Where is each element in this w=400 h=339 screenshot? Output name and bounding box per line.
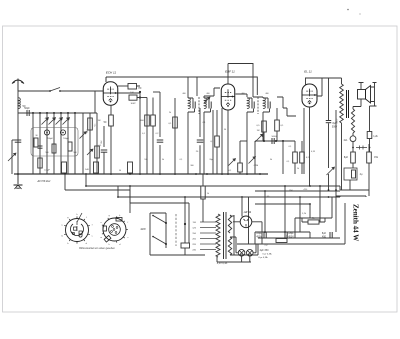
wire tube3 top to rail — [305, 78, 307, 85]
wire field to electrolytic — [353, 106, 375, 136]
wire small links filter — [264, 232, 330, 238]
tube U2 EBF11 — [221, 84, 235, 110]
ground bus main — [14, 173, 268, 175]
coil L3 — [68, 142, 72, 151]
voltage selector S3 rails — [150, 213, 166, 248]
svg-text:Röhrensockel von unten gesehen: Röhrensockel von unten gesehen — [79, 247, 115, 250]
wire C8 node link — [137, 92, 140, 174]
capacitor C2 on grid line — [26, 110, 28, 116]
svg-text:EBF 11: EBF 11 — [225, 70, 235, 74]
svg-text:k: k — [119, 215, 120, 217]
IF transformer T1 secondary coil — [204, 98, 206, 109]
svg-text:2x1: 2x1 — [344, 139, 349, 142]
socket V2 pin dots — [112, 226, 114, 228]
wire R1 to bus — [110, 126, 112, 174]
wire vertical x335 lower — [335, 190, 337, 232]
trimmer CT4 — [63, 118, 70, 125]
resistor R5 diode load — [215, 136, 220, 147]
wire antenna switch horizontal — [18, 91, 104, 113]
wire heater line y186 — [86, 174, 340, 186]
wire rectifier leads — [233, 222, 262, 244]
wire dashed shield x176 — [175, 214, 177, 246]
wire tube1 plate right — [118, 85, 128, 87]
socket V1 key — [71, 224, 84, 236]
variable capacitor C3 section 1 — [44, 130, 49, 135]
svg-text:460: 460 — [265, 93, 268, 95]
socket V2 pins — [102, 224, 104, 227]
socket V2 notches — [116, 218, 122, 222]
capacitor C31 — [38, 145, 43, 147]
wire tube2 plate to IF2 — [236, 94, 248, 97]
antenna trimmer branch — [11, 140, 13, 174]
electrolytic C21 8uF — [284, 232, 286, 238]
wire vertical x265 — [264, 191, 266, 232]
svg-text:s: s — [127, 237, 128, 239]
resistor R18 below bus — [202, 174, 204, 186]
wire B+ bus y244 — [237, 203, 345, 244]
svg-text:0,1: 0,1 — [229, 170, 232, 172]
wire HT to rectifier — [230, 215, 234, 217]
svg-text:6 pr 0,3A: 6 pr 0,3A — [263, 253, 272, 256]
svg-text:HF: HF — [138, 87, 142, 90]
wire left drop from top rail x197 — [196, 77, 198, 96]
svg-text:5000: 5000 — [272, 136, 278, 138]
tube U4 AZ11 rectifier — [240, 216, 252, 228]
wire detector node — [255, 132, 295, 141]
node dots on y113 — [32, 112, 34, 114]
electrolytic block C19 — [344, 168, 357, 180]
antenna A1 — [12, 79, 24, 92]
wire lower-left link y203 — [65, 174, 189, 203]
IF T2 core — [257, 97, 259, 114]
dial lamp LP2 — [247, 250, 254, 257]
capacitor C13 across T2 primary — [251, 102, 253, 109]
resistor R8 — [293, 152, 298, 163]
electrolytic C22 8uF — [329, 232, 331, 238]
coil L1 antenna — [18, 98, 20, 109]
svg-text:50: 50 — [119, 170, 121, 172]
switch S1 wave change — [50, 88, 60, 92]
IF transformer T2 secondary coil — [263, 98, 265, 109]
svg-text:460: 460 — [206, 93, 209, 95]
svg-text:450V: 450V — [256, 236, 262, 239]
capacitor C35 — [38, 158, 42, 168]
power transformer T4 primary winding — [216, 214, 220, 257]
socket V1 center detail — [79, 234, 82, 237]
svg-text:2k: 2k — [169, 112, 171, 114]
svg-text:4,2W: 4,2W — [335, 119, 337, 124]
resistor R16 — [95, 146, 100, 158]
wire tube3 grid from detector — [277, 97, 296, 116]
volume potentiometer P1 — [254, 141, 256, 174]
wire line y204 — [255, 204, 310, 218]
resistor R13 4k — [308, 220, 319, 224]
power transformer T4 HT winding — [228, 215, 231, 233]
svg-text:AZ 11: AZ 11 — [243, 210, 252, 214]
svg-text:4μF 350: 4μF 350 — [260, 249, 269, 252]
power transformer T4 core — [223, 212, 225, 259]
svg-text:h: h — [109, 244, 110, 246]
svg-text:0,1μF: 0,1μF — [44, 170, 50, 172]
wire rectifier anode feed — [241, 197, 243, 217]
wire selector bottom — [150, 248, 205, 255]
capacitor C9 — [157, 139, 164, 141]
svg-text:6 pr 0,3A: 6 pr 0,3A — [259, 256, 268, 259]
wire grid line y113 — [18, 112, 97, 114]
electrolytic C20 16uF — [263, 232, 265, 238]
capacitor C1 50pF — [15, 139, 22, 141]
wire tube3 cathode down — [309, 107, 311, 186]
wire vertical x285 — [284, 186, 286, 232]
trimmer CT2 — [49, 118, 56, 125]
wire tube3 leads — [303, 108, 305, 174]
capacitor C10 across T1 primary — [192, 102, 194, 109]
svg-text:450: 450 — [322, 236, 327, 239]
svg-text:g: g — [109, 215, 110, 217]
wire x295 AF coupling — [294, 141, 296, 152]
wire right links — [336, 186, 369, 197]
junction dots right mesh — [264, 190, 266, 192]
svg-text:0,5M: 0,5M — [254, 165, 259, 167]
junction dots on bus — [17, 173, 19, 175]
mains switch S2 — [327, 167, 335, 175]
capacitor C14 across T2 secondary — [267, 102, 269, 109]
socket V2 inner — [109, 224, 121, 236]
IF transformer T2 primary coil — [247, 98, 249, 109]
svg-text:EL 11: EL 11 — [304, 70, 312, 74]
capacitor C7 coupling — [128, 84, 137, 90]
trimmer CT1 — [42, 118, 49, 125]
svg-text:500V: 500V — [332, 127, 338, 129]
svg-text:100P: 100P — [130, 103, 136, 105]
svg-text:5k: 5k — [162, 159, 164, 161]
tube socket V1 outline — [66, 219, 89, 242]
power transformer T4 tap labels — [200, 221, 216, 223]
wire lamps link — [236, 237, 256, 253]
trimmer CT7 — [80, 132, 87, 139]
resistor R6 0.5M — [262, 121, 267, 132]
speaker field resistor R10 — [351, 109, 354, 133]
output transformer T3 primary — [340, 84, 344, 123]
svg-text:50pF: 50pF — [24, 107, 30, 110]
junction dots distribution — [129, 185, 131, 187]
IF T1 core — [198, 97, 200, 114]
wire filament return y262 — [217, 256, 251, 262]
tube socket V2 outline — [103, 218, 126, 241]
IF transformer T1 primary coil — [188, 98, 190, 109]
svg-text:760pF: 760pF — [47, 138, 54, 140]
wire drop x189 — [188, 203, 190, 243]
svg-text:1M: 1M — [257, 130, 260, 132]
power transformer T4 filament winding — [228, 237, 231, 255]
capacitor C12 — [197, 139, 204, 141]
svg-text:450V: 450V — [288, 236, 294, 239]
resistor R17 — [238, 163, 243, 172]
wire AVC line y197 — [118, 186, 340, 197]
fuse F1 — [181, 243, 190, 248]
tube U3 EL11 — [302, 84, 317, 107]
wire y232 link — [255, 232, 310, 244]
wire grid trimmer — [204, 97, 210, 103]
wire screen bus y238 — [258, 237, 340, 239]
svg-text:42W: 42W — [140, 227, 146, 231]
node HF — [139, 91, 141, 93]
svg-text:8μF: 8μF — [344, 156, 349, 159]
ink speck top margin — [347, 9, 349, 11]
output transformer core — [346, 90, 348, 118]
speaker LS1 cone — [366, 86, 371, 104]
ground symbol — [17, 174, 19, 184]
wire top B+ rail — [106, 77, 257, 95]
wire transformer HT right rail — [233, 215, 235, 255]
wire y218 link — [295, 197, 332, 238]
capacitor C34 — [128, 162, 133, 173]
dial lamp LP1 — [238, 250, 245, 257]
electrolytic C17 2x1 — [350, 136, 356, 142]
capacitor C15 5000 — [271, 138, 273, 144]
svg-text:+250: +250 — [303, 189, 307, 191]
svg-text:d: d — [119, 244, 120, 246]
wire drop x185 — [184, 197, 186, 243]
wire x147 drop — [146, 98, 148, 175]
socket V1 pins — [64, 224, 66, 227]
wire drop x248 HT — [248, 197, 250, 244]
wire tube2 top cap lead — [227, 64, 229, 85]
capacitor C16 60pF screen — [326, 120, 332, 122]
coil L2 — [52, 144, 56, 153]
svg-text:m: m — [61, 236, 63, 238]
wire x175 screen drop — [174, 98, 176, 174]
wire tube3 plate up to transformer — [317, 78, 322, 96]
resistor R3 — [151, 115, 156, 126]
trimmer CT8 — [87, 149, 93, 155]
svg-text:1k: 1k — [297, 168, 299, 170]
resistor R9 0.25M grid leak — [300, 152, 305, 163]
wire antenna down lead — [17, 91, 19, 174]
junction dots detector — [263, 140, 265, 142]
resistor R4 screen — [173, 117, 178, 128]
capacitor C8 100p — [129, 95, 137, 100]
shield box around tuning gang — [31, 128, 78, 157]
wire filament leads — [230, 237, 258, 255]
speaker LS1 magnet — [358, 90, 366, 100]
wire tube2 leads down — [221, 108, 223, 174]
speaker voice coil link — [353, 99, 361, 109]
junction dots distribution 2 — [85, 185, 87, 187]
speaker leads — [359, 83, 377, 107]
wire right side verticals — [82, 113, 84, 174]
trimmer CT6 — [249, 157, 256, 164]
selector lever 1 — [153, 216, 166, 224]
wire x240 top link — [240, 140, 247, 142]
wire vertical x300 — [299, 197, 301, 232]
capacitor C33 540 — [94, 162, 99, 173]
wire drop x253 grid link — [228, 64, 253, 98]
svg-text:ΔF=56 kHz: ΔF=56 kHz — [37, 179, 52, 183]
capacitor C6 cathode — [101, 149, 108, 151]
wire drop x130 to bottom — [129, 186, 131, 213]
capacitor C32 0.1uF — [62, 162, 67, 173]
svg-text:Zenith 44 W: Zenith 44 W — [352, 204, 360, 241]
resistor R14 field — [276, 239, 287, 243]
capacitor C18 8uF — [351, 152, 356, 163]
wire vertical x240 — [239, 141, 241, 163]
socket V1 pointer — [77, 213, 82, 222]
trimmer CT3 — [56, 118, 63, 125]
wire HT line y191 — [255, 190, 340, 192]
svg-text:760pF: 760pF — [63, 138, 70, 140]
resistor R15 — [88, 118, 93, 130]
svg-text:1k: 1k — [207, 193, 209, 195]
svg-text:1,2k: 1,2k — [373, 135, 378, 138]
selector lever 2 — [153, 237, 166, 245]
resistor R2 — [145, 115, 150, 126]
svg-text:6,3V 0,3A: 6,3V 0,3A — [217, 262, 228, 265]
wire mesh verticals left block — [32, 113, 34, 174]
svg-text:1M: 1M — [98, 120, 101, 122]
resistor R7 0.1 — [275, 120, 280, 131]
wire x283 drop — [282, 141, 284, 174]
capacitor C30 padder — [34, 138, 38, 147]
wire screen x336 — [335, 110, 337, 190]
wire vertical x213 — [212, 110, 214, 174]
wire filter drops — [350, 163, 369, 196]
wire C7 to HF node — [118, 86, 140, 93]
capacitor C11 across T1 secondary — [208, 102, 210, 109]
trimmer CT5 — [229, 159, 236, 166]
svg-text:460: 460 — [182, 93, 185, 95]
plus junction row — [356, 146, 367, 150]
resistor R1 50k — [109, 115, 114, 126]
tube U1 ECH11 — [103, 82, 118, 106]
variable capacitor C4 section 2 — [60, 130, 65, 135]
svg-text:5k: 5k — [270, 159, 272, 161]
svg-text:460: 460 — [241, 93, 244, 95]
wire vertical x320 — [319, 186, 321, 222]
svg-text:ECH 11: ECH 11 — [106, 71, 117, 75]
resistor R12 15k — [367, 152, 372, 163]
resistor R11 12k — [367, 132, 372, 139]
wire tube1 cathode down — [110, 105, 112, 115]
